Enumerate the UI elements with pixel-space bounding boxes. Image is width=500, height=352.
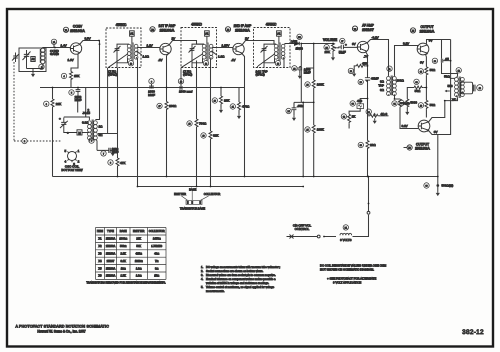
svg-text:CONTROL: CONTROL xyxy=(295,227,310,231)
svg-text:56Ω: 56Ω xyxy=(415,89,421,93)
svg-text:6.8Ω: 6.8Ω xyxy=(82,121,89,125)
svg-text:10Ω: 10Ω xyxy=(370,143,376,147)
svg-text:19Ω: 19Ω xyxy=(121,266,126,270)
svg-text:62K: 62K xyxy=(213,134,218,138)
svg-text:1.3V: 1.3V xyxy=(68,58,74,62)
svg-text:1Ω: 1Ω xyxy=(99,125,104,129)
stage label CONV xyxy=(63,25,85,33)
thermistor R22 560 ohm xyxy=(424,183,454,196)
resistor R6 62K xyxy=(201,131,219,140)
svg-text:BASE: BASE xyxy=(189,187,196,191)
svg-text:4Ω-8: 4Ω-8 xyxy=(381,112,388,116)
IF3 slug adjust square xyxy=(277,31,282,44)
svg-text:5.: 5. xyxy=(201,285,203,289)
dc coil note xyxy=(320,264,387,272)
resistor R19 56 ohm Q5 emitter xyxy=(418,67,436,76)
svg-text:1.75MEG: 1.75MEG xyxy=(151,244,162,248)
svg-text:1.25V: 1.25V xyxy=(222,43,230,47)
antenna coil winding xyxy=(27,48,47,72)
wire Q2 collector to IF2 primary xyxy=(169,41,197,46)
svg-text:15Ω: 15Ω xyxy=(154,274,159,278)
wire AVC cap stub xyxy=(306,68,314,73)
resistor R4 180 ohm xyxy=(157,102,177,111)
svg-text:455KC: 455KC xyxy=(191,23,202,27)
wire left bias vertical to bus A xyxy=(52,88,54,177)
svg-text:18: 18 xyxy=(188,124,190,126)
svg-text:VOLUME: VOLUME xyxy=(323,38,338,42)
svg-text:1.3Ω: 1.3Ω xyxy=(218,55,225,59)
volume control R11 xyxy=(323,38,338,61)
resistor R7 10K xyxy=(212,96,229,113)
stage label OUTPUT top xyxy=(410,25,434,33)
wire IF2 primary return to bus B xyxy=(196,61,198,187)
resistor R17 10 ohm xyxy=(358,141,376,150)
svg-text:22K: 22K xyxy=(56,102,61,106)
capacitor C9 .05 output xyxy=(432,57,450,64)
driver transformer ref xyxy=(387,66,392,71)
svg-text:455KC: 455KC xyxy=(266,23,277,27)
transistor Q6 OUTPUT 2N188A xyxy=(418,120,430,132)
svg-text:X4: X4 xyxy=(354,29,356,31)
svg-text:2.: 2. xyxy=(201,269,203,273)
wire switch drop from bus xyxy=(368,177,370,212)
svg-text:1475Ω: 1475Ω xyxy=(153,237,161,241)
IF1 windings xyxy=(108,43,142,134)
svg-text:CATH: CATH xyxy=(291,41,298,44)
svg-text:15: 15 xyxy=(277,63,279,65)
voltage labels xyxy=(61,36,438,134)
svg-text:1.0Ω: 1.0Ω xyxy=(136,274,142,278)
battery 9 volts xyxy=(340,211,370,241)
svg-text:MMF: MMF xyxy=(304,71,311,75)
svg-text:.7V: .7V xyxy=(364,54,369,58)
wire Q1 emitter down xyxy=(71,54,78,88)
transistor Q5 OUTPUT 2N188A xyxy=(417,43,429,55)
svg-text:GANG: GANG xyxy=(50,52,60,56)
wire IF1 box secondary bottom to bus B xyxy=(137,68,139,187)
wire Q4 collector to driver primary xyxy=(367,40,389,76)
wire driver secondary top to Q5 base xyxy=(395,46,418,76)
IF1 slug adjust square xyxy=(130,31,135,44)
svg-text:variation of ±15% in voltage: variation of ±15% in voltage and resista… xyxy=(206,281,269,285)
resistor R8 470 ohm xyxy=(230,102,250,119)
svg-text:3: 3 xyxy=(91,141,92,143)
IF1 item ref xyxy=(128,61,133,66)
svg-text:M1: M1 xyxy=(298,37,301,39)
svg-text:+: + xyxy=(59,117,61,121)
wire driver secondary bottom to Q6 base xyxy=(395,95,419,128)
svg-text:B1: B1 xyxy=(345,228,347,230)
output transformer ref xyxy=(456,68,461,73)
svg-text:30: 30 xyxy=(352,104,354,106)
svg-text:425Ω: 425Ω xyxy=(136,252,142,256)
svg-text:1.0Ω: 1.0Ω xyxy=(136,266,142,270)
svg-text:X2: X2 xyxy=(151,30,153,32)
oscillator trimmer cap xyxy=(59,117,77,133)
transistor Q4 AF AMP 2N107 xyxy=(357,41,368,52)
output transformer T2 xyxy=(455,77,465,99)
resistor R13 feedback xyxy=(358,77,379,85)
capacitor C6 1000MMF AVC xyxy=(292,66,311,79)
resistor R1 15K emitter Q1 xyxy=(61,72,79,81)
svg-text:Howard W. Sams & Co., Inc. 195: Howard W. Sams & Co., Inc. 1957 xyxy=(37,330,86,334)
svg-text:+: + xyxy=(345,43,347,47)
wire output coupling verticals xyxy=(442,40,458,77)
svg-text:1.2V: 1.2V xyxy=(147,43,153,47)
transistor socket diagram xyxy=(174,187,220,210)
svg-text:2N188A: 2N188A xyxy=(420,29,435,34)
svg-text:6: 6 xyxy=(46,104,47,106)
resistor R2 22K xyxy=(44,99,62,108)
svg-text:4.: 4. xyxy=(201,277,203,281)
wire IF2 secondary return xyxy=(210,61,212,187)
osc trimmer wiper dot xyxy=(67,132,69,134)
IF2 item ref xyxy=(203,61,208,66)
svg-text:NOT SHOWN ON SCHEMATIC DIAGRAM: NOT SHOWN ON SCHEMATIC DIAGRAM. xyxy=(320,267,374,271)
svg-text:TYPE: TYPE xyxy=(107,229,114,233)
svg-text:TRANSISTORS REMOVED FOR RESIST: TRANSISTORS REMOVED FOR RESISTANCE MEASU… xyxy=(86,281,166,285)
output transformer labels xyxy=(444,75,457,102)
svg-text:ITEM: ITEM xyxy=(97,229,103,233)
wire emitter bypass rail y88 xyxy=(40,87,245,89)
svg-text:(470Ω): (470Ω) xyxy=(183,73,192,77)
svg-text:45K: 45K xyxy=(362,61,367,65)
wire ground below thermistor xyxy=(437,190,439,192)
svg-text:1900Ω: 1900Ω xyxy=(119,237,127,241)
svg-text:180Ω: 180Ω xyxy=(169,104,177,108)
svg-text:Volume control at maximum, no: Volume control at maximum, no signal app… xyxy=(206,285,275,289)
svg-text:2N168A: 2N168A xyxy=(106,237,116,241)
wire detector diode line to volume xyxy=(285,43,333,45)
svg-text:38: 38 xyxy=(434,61,436,63)
svg-text:5600: 5600 xyxy=(410,101,417,105)
resistor R20 56 ohm h xyxy=(414,79,423,93)
svg-text:382-12: 382-12 xyxy=(462,329,484,336)
svg-text:470: 470 xyxy=(357,99,362,103)
svg-text:500: 500 xyxy=(447,84,452,88)
wire switch arm xyxy=(294,236,337,238)
svg-text:590Ω: 590Ω xyxy=(120,244,126,248)
IF transformer T2 dashed box 455KC xyxy=(181,28,217,68)
transistor Q3 2ND IF 2N168A xyxy=(233,43,244,54)
svg-text:8.2V: 8.2V xyxy=(403,41,409,45)
antenna item ref xyxy=(39,64,44,69)
IF1 trimmer cap xyxy=(114,44,130,68)
svg-text:47K: 47K xyxy=(120,161,125,165)
svg-text:1: 1 xyxy=(41,67,42,69)
wire Q6 collector to output primary xyxy=(429,98,458,122)
svg-text:31: 31 xyxy=(368,112,370,114)
svg-text:32: 32 xyxy=(343,117,345,119)
svg-text:1000 mmf: 1000 mmf xyxy=(179,90,193,94)
transistor Q2 1ST IF 2N168A xyxy=(160,43,171,54)
svg-text:1.4V: 1.4V xyxy=(61,43,67,47)
svg-text:19: 19 xyxy=(202,136,204,138)
on-off switch xyxy=(287,223,321,238)
resistor R16 1K xyxy=(341,114,355,124)
svg-text:470Ω: 470Ω xyxy=(242,105,250,109)
svg-text:MMF: MMF xyxy=(112,150,119,154)
svg-text:16: 16 xyxy=(479,88,481,90)
IF transformer T1 dashed box 455KC xyxy=(106,28,141,68)
stage label 2ND IF AMP xyxy=(225,24,251,32)
stage label AF AMP xyxy=(352,23,374,31)
svg-text:2N168A: 2N168A xyxy=(235,28,250,33)
svg-text:21K: 21K xyxy=(136,237,141,241)
svg-text:2N168A: 2N168A xyxy=(160,28,175,33)
wire bus B xyxy=(138,186,304,188)
wire emitter feedback into osc xyxy=(78,88,86,118)
capacitor C2 2000MMF xyxy=(69,88,82,103)
capacitor C3 1000MMF osc xyxy=(97,147,119,156)
capacitor C7 .05M xyxy=(286,104,304,121)
svg-text:10K: 10K xyxy=(224,99,229,103)
svg-text:43Ω: 43Ω xyxy=(154,252,159,256)
svg-text:1820Ω: 1820Ω xyxy=(135,259,143,263)
antenna trimmer box xyxy=(31,57,35,62)
svg-text:.05: .05 xyxy=(445,57,450,61)
svg-text:A1: A1 xyxy=(205,32,209,36)
resistor R5 700 ohm xyxy=(187,119,207,128)
svg-text:50Ω: 50Ω xyxy=(444,75,450,79)
svg-text:2V: 2V xyxy=(172,37,176,41)
svg-text:12: 12 xyxy=(458,70,460,72)
svg-text:A1: A1 xyxy=(130,32,134,36)
svg-text:20: 20 xyxy=(214,101,216,103)
osc coil bottom view xyxy=(61,149,82,172)
wire AVC filter vertical 1 xyxy=(294,44,314,177)
IF2 slug adjust square xyxy=(205,31,210,44)
resistor R23 56 ohm lower xyxy=(418,100,436,109)
gang item ref xyxy=(22,138,27,143)
wire volume wiper to coupling cap xyxy=(338,46,342,49)
speaker ref xyxy=(477,85,483,91)
IF2 tap label xyxy=(183,69,192,76)
svg-text:Socket connections are shown a: Socket connections are shown as bottom v… xyxy=(206,269,263,273)
IF3 item ref xyxy=(275,61,280,66)
svg-text:X1: X1 xyxy=(98,237,102,241)
svg-text:X3: X3 xyxy=(98,252,102,256)
svg-text:1.5K: 1.5K xyxy=(121,274,127,278)
svg-text:Nominal tolerance on component: Nominal tolerance on component values ma… xyxy=(206,277,276,281)
svg-text:27: 27 xyxy=(341,41,343,43)
IF2 windings xyxy=(181,43,217,86)
svg-text:2N168A: 2N168A xyxy=(106,244,116,248)
wire Q5 emitter down xyxy=(407,54,426,117)
wire 560 bias xyxy=(349,99,367,115)
wire Q1 base from antenna coil xyxy=(46,47,71,49)
svg-text:1N64: 1N64 xyxy=(296,47,304,51)
wire speaker leads xyxy=(446,78,456,91)
svg-text:8: 8 xyxy=(110,163,111,165)
driver transformer labels xyxy=(378,79,404,92)
svg-text:A1: A1 xyxy=(277,32,281,36)
svg-text:3.: 3. xyxy=(201,273,203,277)
svg-text:2N107: 2N107 xyxy=(107,259,115,263)
svg-text:13: 13 xyxy=(130,63,132,65)
svg-text:0V: 0V xyxy=(434,130,438,134)
svg-text:2N188A: 2N188A xyxy=(106,266,116,270)
svg-text:A PHOTOFACT STANDARD NOTATION: A PHOTOFACT STANDARD NOTATION SCHEMATIC xyxy=(16,325,110,329)
svg-text:EMITTER: EMITTER xyxy=(133,229,145,233)
svg-text:180K: 180K xyxy=(317,128,324,132)
wire IF2 secondary to Q3 base xyxy=(217,47,234,49)
svg-text:8.2V: 8.2V xyxy=(402,124,408,128)
svg-text:X6: X6 xyxy=(408,148,410,150)
antenna ground xyxy=(31,72,35,78)
svg-text:COLLECTOR: COLLECTOR xyxy=(204,192,220,196)
svg-text:29: 29 xyxy=(360,82,362,84)
wire Q6 emitter to bus and ground xyxy=(429,131,438,191)
svg-text:15K: 15K xyxy=(74,74,79,78)
wire Q5 collector to top rail xyxy=(427,40,451,44)
capacitor C4 1000MMF IF1 xyxy=(148,79,155,97)
svg-text:59K: 59K xyxy=(136,244,141,248)
svg-text:9 VOLTS: 9 VOLTS xyxy=(340,238,351,242)
oscillator item ref xyxy=(89,138,94,143)
svg-text:9: 9 xyxy=(151,81,152,83)
svg-text:3.1K: 3.1K xyxy=(121,259,127,263)
svg-text:8.5V: 8.5V xyxy=(85,37,91,41)
svg-text:25: 25 xyxy=(306,130,308,132)
svg-text:(470Ω): (470Ω) xyxy=(256,73,265,77)
svg-text:5MF: 5MF xyxy=(339,50,346,54)
svg-text:(470Ω): (470Ω) xyxy=(108,73,117,77)
svg-text:56Ω: 56Ω xyxy=(430,68,436,72)
transistor Q1 CONV 2N168A xyxy=(70,43,81,54)
stage label OUTPUT bottom xyxy=(404,142,430,150)
wire 470 ohm drop xyxy=(238,88,240,114)
svg-text:5: 5 xyxy=(71,93,72,95)
antenna tuning cap xyxy=(23,50,31,63)
svg-text:2N107: 2N107 xyxy=(362,27,375,32)
svg-text:10: 10 xyxy=(180,81,182,83)
wire bus A main negative rail xyxy=(53,176,438,178)
svg-text:28: 28 xyxy=(350,71,352,73)
oscillator coil labels xyxy=(82,108,103,137)
svg-text:37: 37 xyxy=(401,103,403,105)
IF1 tap label xyxy=(108,69,117,76)
svg-text:100K: 100K xyxy=(317,83,324,87)
svg-text:40MF: 40MF xyxy=(371,77,379,81)
svg-text:2.1K: 2.1K xyxy=(121,252,127,256)
svg-text:COLLECTOR: COLLECTOR xyxy=(149,229,165,233)
svg-text:40: 40 xyxy=(420,105,422,107)
resistor R10 180K xyxy=(305,125,324,134)
resistance table xyxy=(96,228,167,280)
svg-text:2V: 2V xyxy=(245,37,249,41)
wire 1K stub xyxy=(348,123,350,128)
svg-text:33: 33 xyxy=(360,145,362,147)
wire battery to terminal xyxy=(353,215,369,237)
svg-text:EMITTER: EMITTER xyxy=(174,192,186,196)
tuning gang dashed link xyxy=(14,62,61,141)
photofact note xyxy=(327,277,376,285)
svg-text:36: 36 xyxy=(415,82,417,84)
svg-text:BASE: BASE xyxy=(120,229,127,233)
svg-text:2N188A: 2N188A xyxy=(106,274,116,278)
svg-text:34: 34 xyxy=(393,104,395,106)
svg-text:17: 17 xyxy=(158,106,160,108)
svg-text:21: 21 xyxy=(232,107,234,109)
svg-text:MMF: MMF xyxy=(148,93,155,97)
svg-text:X1: X1 xyxy=(65,30,67,32)
svg-text:X3: X3 xyxy=(227,30,229,32)
oscillator coil windings xyxy=(64,117,100,150)
wire osc coil tap to 47K vertical xyxy=(98,68,118,177)
svg-text:7Ω: 7Ω xyxy=(155,259,158,263)
svg-text:-8.2V: -8.2V xyxy=(372,36,379,40)
svg-text:1.3Ω: 1.3Ω xyxy=(143,55,150,59)
svg-text:9 VOLT APPLICATION: 9 VOLT APPLICATION xyxy=(333,280,361,284)
capacitor C8 5MF xyxy=(339,38,347,54)
notes list xyxy=(201,265,280,293)
svg-text:X5: X5 xyxy=(98,266,102,270)
svg-text:7: 7 xyxy=(103,154,104,156)
svg-text:9V: 9V xyxy=(429,38,433,42)
svg-text:455KC: 455KC xyxy=(116,23,127,27)
svg-text:1.: 1. xyxy=(201,265,203,269)
driver transformer T1 xyxy=(387,76,397,96)
svg-text:X2: X2 xyxy=(98,244,102,248)
IF3 trimmer cap xyxy=(261,44,277,68)
svg-text:4: 4 xyxy=(63,76,64,78)
svg-text:MMF: MMF xyxy=(75,98,82,102)
wire 10K AGC drop xyxy=(220,88,222,108)
wire coupling cap to Q4 base xyxy=(344,46,358,48)
resistor R14 560 ohm xyxy=(350,99,364,108)
svg-text:700Ω: 700Ω xyxy=(199,122,207,126)
svg-text:35: 35 xyxy=(420,71,422,73)
speaker xyxy=(461,82,475,94)
svg-text:9Ω: 9Ω xyxy=(380,88,385,92)
IF3 windings xyxy=(258,43,294,68)
svg-text:11: 11 xyxy=(389,69,391,71)
wire Q4 emitter chain xyxy=(354,52,367,176)
IF transformer T3 dashed box 455KC xyxy=(254,28,291,68)
diode M1 1N64 xyxy=(291,34,303,50)
wire IF1 secondary to Q2 base xyxy=(138,47,161,49)
svg-text:Measured values are from soc: Measured values are from socket pin to c… xyxy=(206,273,276,277)
svg-text:X5: X5 xyxy=(412,31,414,33)
pot R15 bias xyxy=(366,109,387,124)
svg-text:2N168A: 2N168A xyxy=(70,28,85,33)
svg-text:X4: X4 xyxy=(98,259,102,263)
resistor R21 5600 xyxy=(399,99,418,115)
capacitor C5 1000MMF IF2 xyxy=(178,79,192,94)
svg-text:23: 23 xyxy=(306,85,308,87)
IF3 tap label xyxy=(256,69,268,76)
gang tuning cap section ref xyxy=(50,39,60,56)
svg-text:X6: X6 xyxy=(98,274,102,278)
svg-text:2N188A: 2N188A xyxy=(415,146,430,151)
wire Q3 emitter to bus A xyxy=(242,53,245,177)
svg-text:2N168A: 2N168A xyxy=(106,252,116,256)
svg-text:9V: 9V xyxy=(420,61,424,65)
wire AVC filter vertical 2 xyxy=(313,44,315,177)
svg-text:39: 39 xyxy=(425,186,427,188)
external trimmer cap xyxy=(12,53,19,63)
stage label 1ST IF AMP xyxy=(150,24,176,32)
antenna loopstick box xyxy=(19,48,46,72)
svg-text:8Ω: 8Ω xyxy=(155,266,158,270)
svg-text:22: 22 xyxy=(293,68,295,70)
wire Q3 collector to IF3 primary xyxy=(242,41,274,46)
svg-text:6V: 6V xyxy=(352,42,356,46)
svg-text:560Ω(M): 560Ω(M) xyxy=(442,184,454,188)
svg-text:14: 14 xyxy=(205,63,207,65)
wire Q2 emitter to bus A xyxy=(167,53,169,177)
